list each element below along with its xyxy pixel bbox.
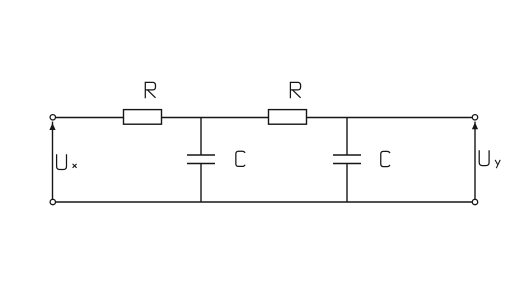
output terminal bottom: [472, 199, 477, 204]
resistor R2: [269, 110, 307, 125]
wire bottom: [55, 201, 472, 203]
voltage arrow Uy head: [472, 122, 478, 129]
capacitor C1: [187, 118, 215, 203]
voltage arrow Uy wire: [474, 122, 476, 200]
input terminal top: [50, 115, 55, 120]
voltage arrow Ux wire: [52, 122, 54, 200]
wire top segment right: [306, 117, 472, 119]
voltage arrow Ux head: [49, 123, 55, 130]
wire top segment left: [55, 117, 124, 119]
resistor R1: [124, 110, 162, 125]
input terminal bottom: [50, 199, 55, 204]
label R2 value R: [290, 82, 300, 98]
wire top segment middle: [161, 117, 269, 119]
capacitor C2: [333, 118, 361, 203]
label Ux: [57, 154, 77, 169]
label C1 value C: [236, 151, 245, 166]
label Uy: [479, 150, 500, 168]
label C2 value C: [381, 151, 390, 166]
output terminal top: [472, 115, 477, 120]
label R1 value R: [145, 82, 155, 98]
